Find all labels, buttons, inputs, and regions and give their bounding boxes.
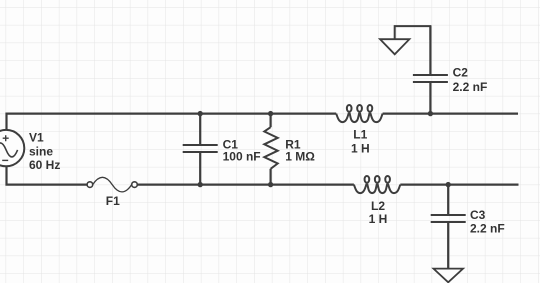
svg-text:1 H: 1 H — [351, 141, 370, 155]
node: R1 bottom junction — [268, 182, 273, 187]
svg-text:C2: C2 — [453, 66, 469, 80]
wire: bottom rail fuse to L2 — [137, 184, 354, 186]
voltage source V1 — [0, 130, 24, 166]
inductor L2 — [354, 176, 400, 193]
svg-text:L2: L2 — [371, 199, 385, 213]
svg-text:V1: V1 — [29, 130, 44, 144]
node: C2 bottom junction — [428, 111, 433, 116]
label C3 value — [470, 208, 505, 235]
svg-text:sine: sine — [29, 145, 53, 159]
svg-text:2.2 nF: 2.2 nF — [470, 221, 505, 235]
svg-text:60 Hz: 60 Hz — [29, 158, 60, 172]
capacitor C1 — [183, 114, 218, 185]
label L1 value — [351, 128, 370, 156]
wire: bottom rail right segment — [400, 184, 518, 186]
svg-text:F1: F1 — [106, 194, 120, 208]
svg-text:1 MΩ: 1 MΩ — [285, 150, 315, 164]
fuse F1 — [87, 177, 137, 192]
svg-text:C3: C3 — [470, 208, 486, 222]
wire: top rail right segment — [383, 112, 518, 114]
ground (bottom, at C3) — [434, 269, 464, 283]
capacitor C3 — [431, 185, 466, 269]
resistor R1 — [264, 114, 277, 185]
node: C3 top junction — [446, 182, 451, 187]
node: C1 top junction — [198, 111, 203, 116]
svg-text:L1: L1 — [353, 128, 367, 142]
inductor L1 — [336, 105, 382, 122]
node: R1 top junction — [268, 111, 273, 116]
svg-text:100 nF: 100 nF — [223, 149, 261, 163]
svg-text:1 H: 1 H — [369, 212, 388, 226]
node: C1 bottom junction — [198, 182, 203, 187]
label C1 value — [223, 137, 261, 163]
capacitor C2 — [413, 26, 448, 114]
label V1 value — [29, 130, 60, 172]
wire: top rail left + V1 upper lead — [7, 114, 337, 131]
svg-text:2.2 nF: 2.2 nF — [453, 80, 488, 94]
ground (top, at C2) — [380, 39, 409, 54]
wire: ground stub up and over to C2 — [395, 26, 431, 40]
label L2 value — [369, 199, 388, 226]
label R1 value — [285, 138, 315, 164]
wire: V1 lower lead + bottom rail to fuse F1 — [7, 166, 88, 184]
label C2 value — [453, 66, 488, 94]
